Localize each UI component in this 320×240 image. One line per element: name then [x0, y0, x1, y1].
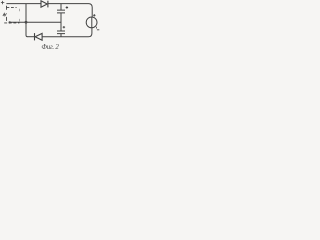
capacitor C2 plates: [57, 31, 65, 34]
diode D1 (points right): [41, 1, 47, 7]
dashed box right edge (faint): [19, 9, 21, 22]
wire: vertical branch at x=25.6: [26, 4, 28, 37]
wire: bottom rail right of D2 with corner to meter: [42, 28, 92, 37]
dashed box left edge: [6, 6, 8, 21]
svg-text:Фиг. 2: Фиг. 2: [41, 44, 59, 51]
diode D2 (points left): [34, 33, 36, 40]
meter plus mark: [93, 14, 95, 16]
capacitor C1 plates: [57, 10, 65, 13]
meter internal vertical line: [91, 17, 93, 28]
AC tilde mark on box edge: [3, 13, 7, 16]
wire: bottom rail left of D2: [27, 36, 34, 38]
meter minus mark: [96, 27, 99, 30]
capacitor C1 / C2 middle lead: [60, 13, 62, 31]
capacitor C2 bottom lead: [60, 34, 62, 37]
meter M1 circle: [86, 17, 97, 28]
capacitor C1 top lead: [60, 4, 62, 11]
dashed box bottom edge: [4, 22, 19, 24]
wire: top rail left segment: [6, 3, 41, 5]
junction dot at vertical/middle rail crossing: [25, 21, 28, 24]
plus mark of C2: [63, 26, 65, 28]
plus mark of C1: [66, 6, 68, 8]
dashed box top edge: [7, 7, 17, 9]
terminal dot on middle rail inside dashed box: [9, 21, 11, 23]
wire: top rail right segment with corner to meter: [48, 4, 92, 18]
wire: middle rail: [10, 21, 61, 23]
plus polarity mark top-left: [1, 1, 4, 4]
